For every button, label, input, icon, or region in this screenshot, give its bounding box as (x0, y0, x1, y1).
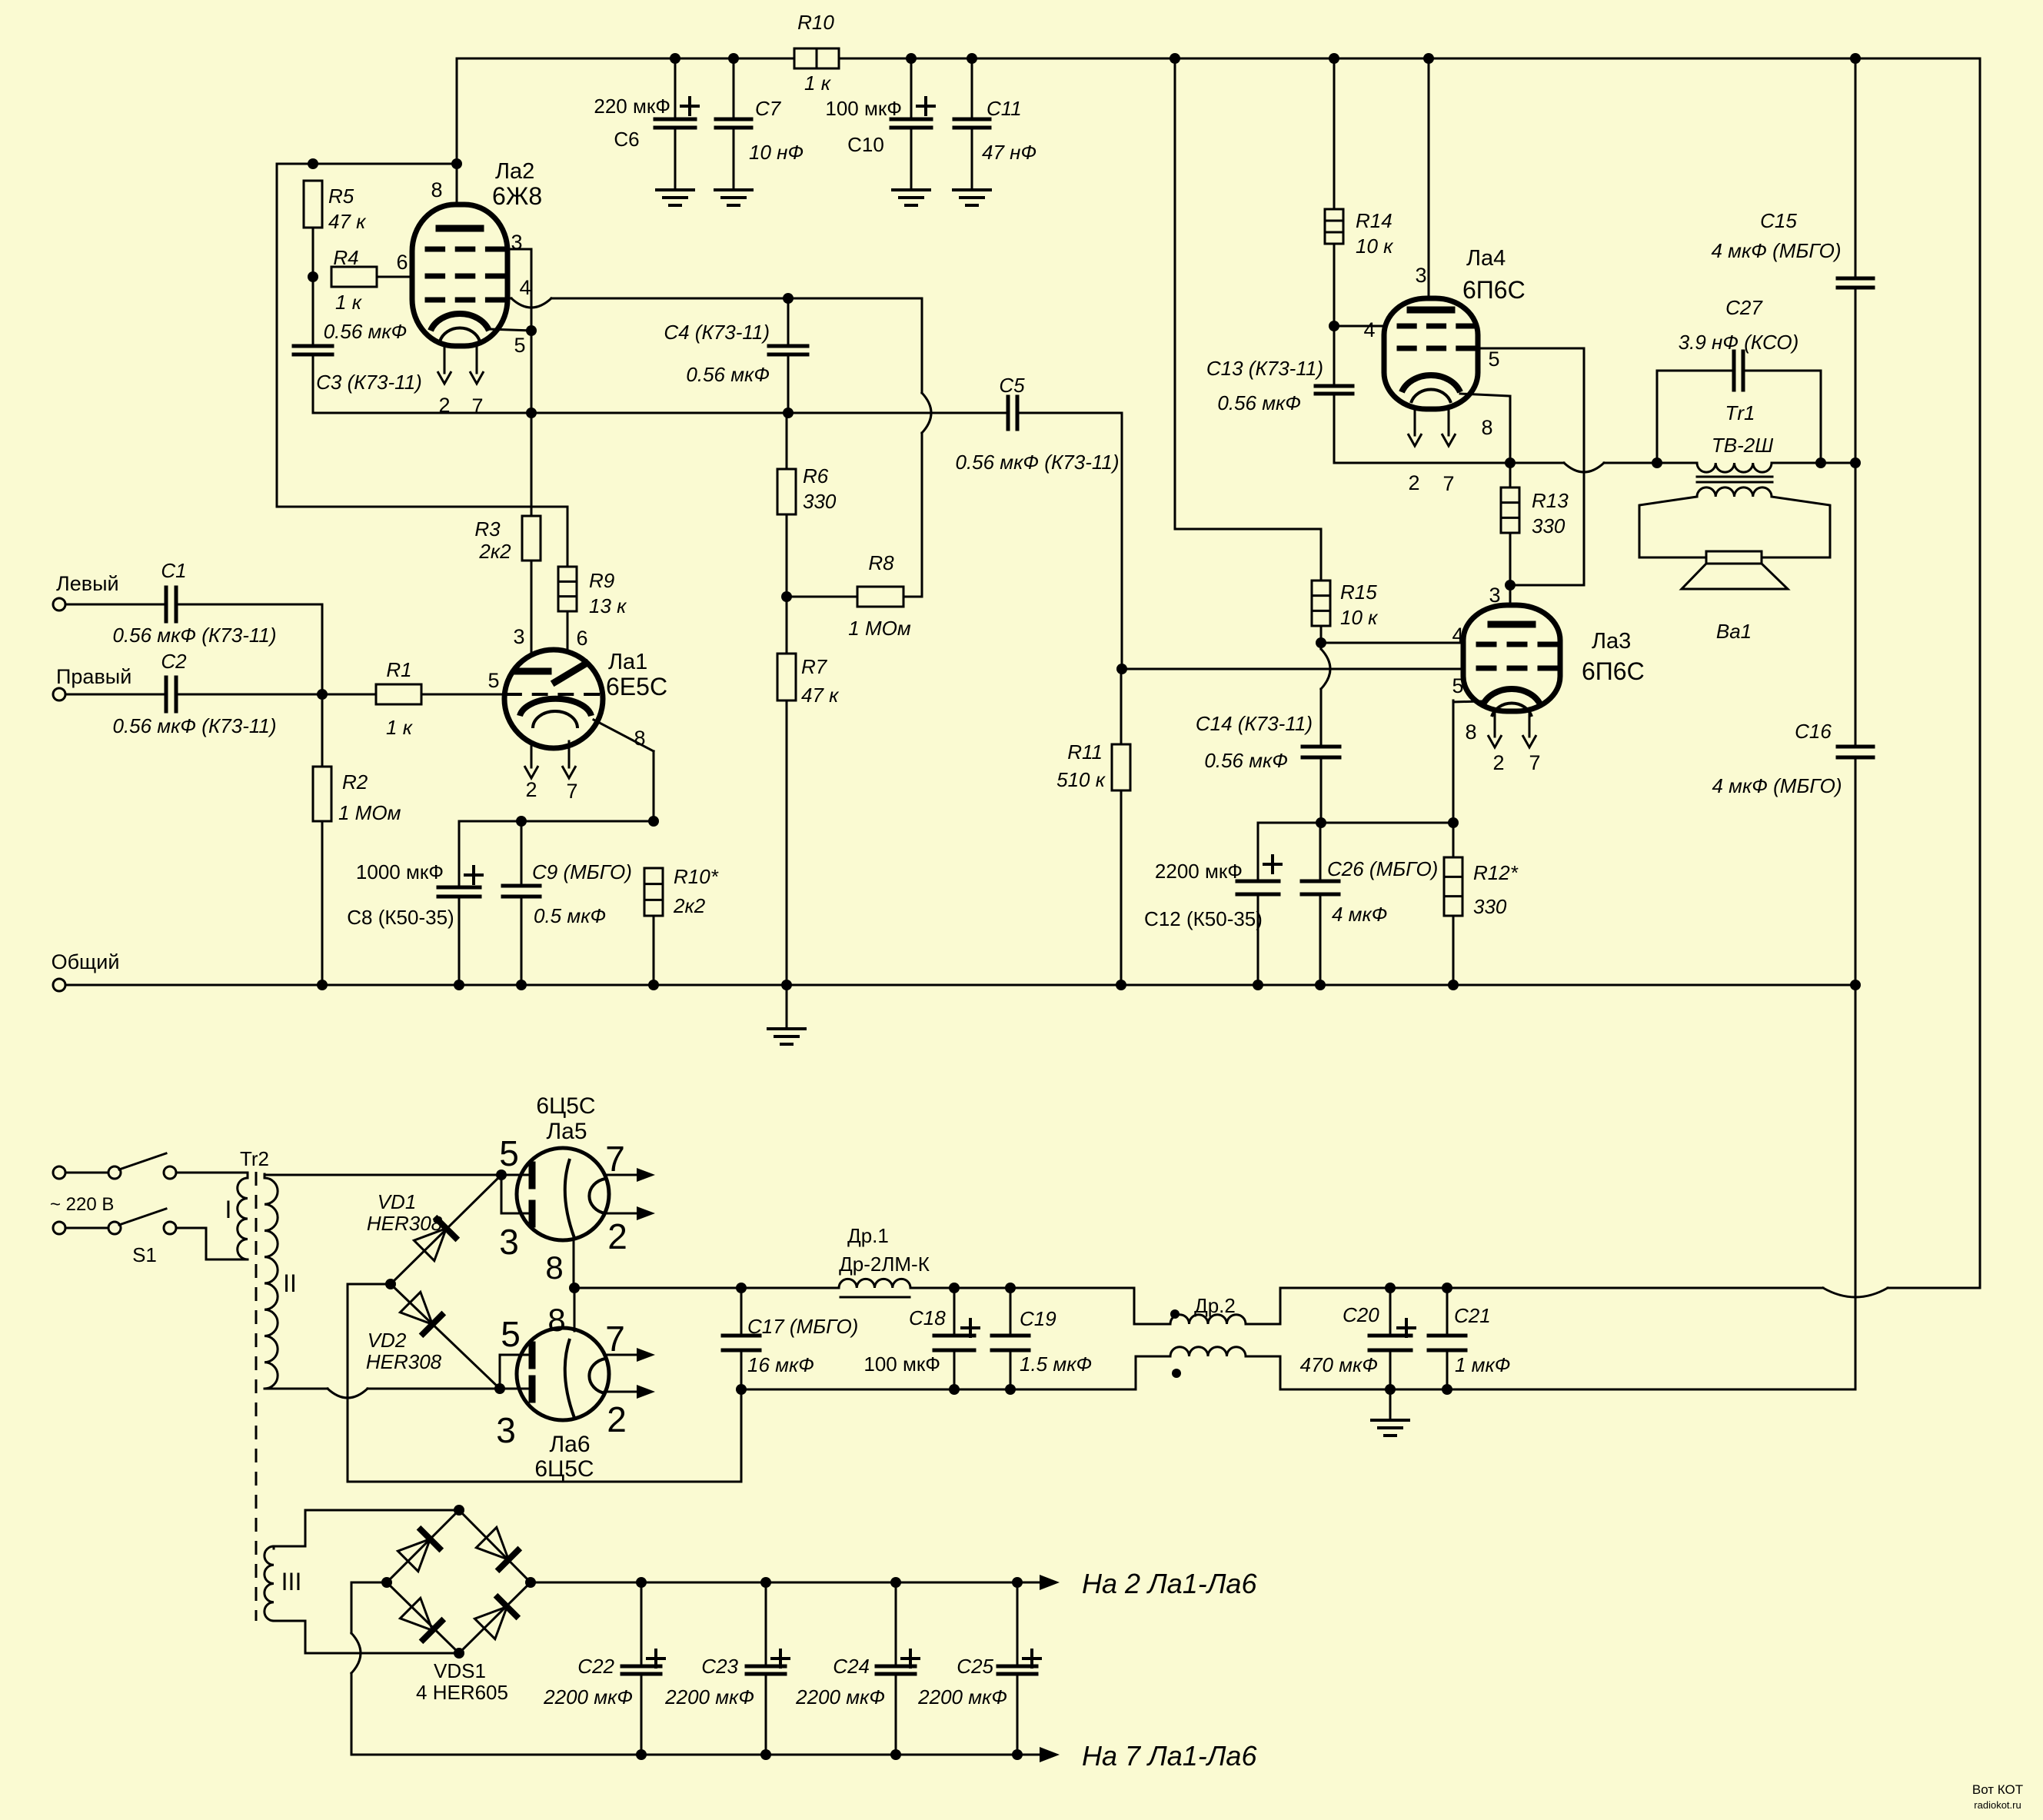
svg-text:2: 2 (607, 1216, 627, 1256)
svg-text:6П6С: 6П6С (1582, 657, 1645, 685)
svg-text:R4: R4 (333, 246, 358, 269)
svg-text:6Е5С: 6Е5С (606, 673, 667, 700)
svg-text:3: 3 (513, 625, 524, 648)
svg-text:С21: С21 (1454, 1304, 1491, 1327)
svg-text:С15: С15 (1760, 209, 1797, 232)
svg-text:Ла5: Ла5 (546, 1119, 587, 1144)
svg-text:1.5 мкФ: 1.5 мкФ (1020, 1353, 1092, 1376)
svg-text:0.56 мкФ: 0.56 мкФ (324, 320, 408, 343)
svg-text:Ва1: Ва1 (1716, 620, 1752, 643)
svg-text:R3: R3 (474, 517, 501, 541)
svg-text:1 к: 1 к (335, 291, 363, 314)
svg-text:1000 мкФ: 1000 мкФ (356, 860, 444, 883)
svg-text:С27: С27 (1725, 296, 1763, 319)
svg-text:С22: С22 (577, 1655, 614, 1678)
svg-text:1 МОм: 1 МОм (848, 617, 911, 640)
svg-text:С8 (К50-35): С8 (К50-35) (347, 906, 454, 929)
svg-text:3: 3 (1489, 584, 1500, 607)
svg-text:R1: R1 (386, 658, 411, 681)
svg-text:2200 мкФ: 2200 мкФ (917, 1685, 1007, 1709)
svg-text:HER308: HER308 (366, 1350, 442, 1373)
svg-text:2: 2 (607, 1399, 627, 1439)
svg-text:VD2: VD2 (368, 1329, 407, 1352)
svg-text:7: 7 (566, 780, 577, 803)
svg-text:7: 7 (1529, 751, 1540, 774)
svg-text:R6: R6 (803, 464, 829, 487)
svg-text:С7: С7 (755, 97, 782, 120)
svg-text:С17 (МБГО): С17 (МБГО) (747, 1315, 858, 1338)
svg-text:R10: R10 (797, 11, 834, 34)
svg-text:10 к: 10 к (1340, 606, 1379, 629)
svg-text:6: 6 (576, 627, 587, 650)
svg-text:47 к: 47 к (801, 684, 840, 707)
svg-text:Левый: Левый (56, 572, 119, 595)
svg-text:5: 5 (1452, 674, 1463, 697)
svg-text:8: 8 (1465, 720, 1476, 744)
svg-text:Др.2: Др.2 (1194, 1294, 1236, 1317)
svg-text:radiokot.ru: radiokot.ru (1974, 1799, 2021, 1811)
svg-text:Правый: Правый (56, 665, 131, 688)
svg-text:330: 330 (1473, 895, 1507, 918)
svg-text:5: 5 (501, 1314, 521, 1354)
svg-text:6П6С: 6П6С (1462, 276, 1526, 304)
svg-text:3: 3 (499, 1222, 519, 1262)
svg-text:2200 мкФ: 2200 мкФ (1155, 860, 1243, 883)
svg-text:0.56 мкФ: 0.56 мкФ (1204, 749, 1288, 772)
svg-text:С18: С18 (909, 1306, 946, 1329)
svg-text:2200 мкФ: 2200 мкФ (664, 1685, 754, 1709)
svg-text:4 мкФ (МБГО): 4 мкФ (МБГО) (1712, 774, 1842, 797)
svg-text:330: 330 (803, 490, 837, 513)
svg-text:Ла4: Ла4 (1466, 246, 1506, 271)
svg-text:С19: С19 (1020, 1307, 1056, 1330)
svg-text:С26 (МБГО): С26 (МБГО) (1327, 857, 1438, 880)
svg-text:С4 (К73-11): С4 (К73-11) (664, 321, 770, 344)
svg-text:2: 2 (1492, 751, 1504, 774)
svg-text:0.5 мкФ: 0.5 мкФ (534, 904, 606, 927)
svg-text:С2: С2 (161, 650, 187, 673)
svg-text:С12 (К50-35): С12 (К50-35) (1144, 907, 1263, 930)
svg-text:16 мкФ: 16 мкФ (747, 1353, 814, 1376)
svg-text:R11: R11 (1067, 740, 1103, 764)
svg-text:Ла1: Ла1 (608, 650, 647, 674)
svg-text:100 мкФ: 100 мкФ (863, 1353, 940, 1376)
svg-text:Вот КОТ: Вот КОТ (1972, 1782, 2023, 1797)
svg-text:На 7 Ла1-Ла6: На 7 Ла1-Ла6 (1082, 1740, 1257, 1772)
svg-text:HER308: HER308 (367, 1212, 443, 1235)
svg-text:2к2: 2к2 (673, 894, 706, 917)
svg-text:6Ж8: 6Ж8 (492, 182, 542, 210)
svg-text:II: II (283, 1269, 297, 1297)
svg-text:Тr1: Тr1 (1725, 401, 1755, 424)
svg-text:0.56 мкФ (К73-11): 0.56 мкФ (К73-11) (955, 451, 1119, 474)
svg-text:5: 5 (499, 1133, 519, 1173)
svg-text:R8: R8 (868, 551, 894, 574)
svg-text:8: 8 (545, 1249, 563, 1286)
svg-text:С24: С24 (833, 1655, 870, 1678)
svg-text:1 к: 1 к (804, 72, 832, 95)
svg-text:VDS1: VDS1 (434, 1659, 486, 1682)
svg-text:10 к: 10 к (1356, 235, 1394, 258)
svg-text:На 2 Ла1-Ла6: На 2 Ла1-Ла6 (1082, 1568, 1257, 1599)
svg-text:3: 3 (496, 1410, 516, 1450)
svg-text:1 к: 1 к (386, 716, 414, 739)
svg-text:С13 (К73-11): С13 (К73-11) (1206, 357, 1323, 380)
svg-text:0.56 мкФ (К73-11): 0.56 мкФ (К73-11) (112, 714, 276, 737)
svg-text:2: 2 (1408, 471, 1419, 494)
svg-text:Ла2: Ла2 (495, 159, 534, 184)
svg-text:С5: С5 (999, 374, 1025, 397)
svg-text:0.56 мкФ: 0.56 мкФ (1217, 391, 1301, 414)
svg-text:4: 4 (519, 276, 531, 299)
svg-text:7: 7 (1442, 472, 1454, 495)
svg-text:Общий: Общий (52, 950, 120, 973)
svg-text:220 мкФ: 220 мкФ (594, 95, 670, 118)
svg-text:I: I (225, 1196, 232, 1223)
svg-text:Ла6: Ла6 (549, 1432, 590, 1457)
svg-text:5: 5 (487, 669, 499, 692)
svg-text:470 мкФ: 470 мкФ (1300, 1353, 1378, 1376)
svg-text:4 мкФ: 4 мкФ (1332, 903, 1387, 926)
svg-text:С11: С11 (987, 97, 1022, 120)
svg-text:Ла3: Ла3 (1592, 629, 1631, 654)
svg-text:330: 330 (1532, 514, 1566, 537)
svg-text:4 HER605: 4 HER605 (416, 1681, 508, 1704)
svg-text:1 мкФ: 1 мкФ (1455, 1353, 1510, 1376)
svg-text:2к2: 2к2 (478, 540, 511, 563)
svg-text:3: 3 (1415, 264, 1426, 287)
svg-text:100 мкФ: 100 мкФ (825, 97, 902, 120)
svg-text:С9 (МБГО): С9 (МБГО) (532, 860, 632, 883)
svg-text:8: 8 (1481, 416, 1492, 439)
svg-text:47 нФ: 47 нФ (982, 141, 1036, 164)
svg-text:2200 мкФ: 2200 мкФ (795, 1685, 885, 1709)
svg-text:С25: С25 (957, 1655, 993, 1678)
svg-text:С1: С1 (161, 559, 186, 582)
svg-text:5: 5 (514, 334, 525, 357)
svg-text:III: III (281, 1568, 302, 1595)
svg-text:47 к: 47 к (328, 210, 367, 233)
svg-text:R9: R9 (589, 569, 614, 592)
svg-text:С14 (К73-11): С14 (К73-11) (1196, 712, 1313, 735)
svg-text:С23: С23 (701, 1655, 738, 1678)
svg-text:6Ц5С: 6Ц5С (534, 1456, 594, 1482)
svg-text:R13: R13 (1532, 489, 1569, 512)
svg-text:С10: С10 (847, 133, 884, 156)
svg-text:Др.1: Др.1 (847, 1224, 889, 1247)
svg-text:0.56 мкФ (К73-11): 0.56 мкФ (К73-11) (112, 624, 276, 647)
svg-text:13 к: 13 к (589, 594, 627, 617)
svg-text:2: 2 (525, 778, 537, 801)
svg-text:7: 7 (605, 1139, 625, 1179)
svg-text:Tr2: Tr2 (240, 1147, 269, 1170)
svg-text:10 нФ: 10 нФ (749, 141, 804, 164)
svg-text:8: 8 (431, 178, 442, 201)
svg-text:6: 6 (396, 251, 408, 274)
svg-text:~ 220 В: ~ 220 В (50, 1194, 114, 1215)
svg-text:С20: С20 (1343, 1303, 1379, 1326)
svg-text:R12*: R12* (1473, 861, 1519, 884)
svg-text:R10*: R10* (674, 865, 719, 888)
svg-text:5: 5 (1488, 348, 1499, 371)
svg-text:R2: R2 (342, 770, 368, 794)
svg-text:С6: С6 (614, 128, 639, 151)
svg-text:ТВ-2Ш: ТВ-2Ш (1712, 434, 1773, 457)
svg-text:3.9 нФ (КСО): 3.9 нФ (КСО) (1679, 331, 1799, 354)
svg-text:510 к: 510 к (1056, 768, 1106, 791)
svg-text:VD1: VD1 (378, 1190, 417, 1213)
svg-text:R14: R14 (1356, 209, 1393, 232)
svg-text:1 МОм: 1 МОм (338, 801, 401, 824)
svg-text:С3 (К73-11): С3 (К73-11) (316, 371, 422, 394)
svg-text:R5: R5 (328, 185, 354, 208)
svg-text:6Ц5С: 6Ц5С (536, 1093, 595, 1119)
svg-text:4: 4 (1363, 318, 1375, 341)
svg-text:Др-2ЛМ-К: Др-2ЛМ-К (839, 1253, 930, 1276)
svg-text:2200 мкФ: 2200 мкФ (543, 1685, 633, 1709)
svg-text:С16: С16 (1795, 720, 1832, 743)
svg-text:4 мкФ (МБГО): 4 мкФ (МБГО) (1711, 239, 1841, 262)
svg-text:0.56 мкФ: 0.56 мкФ (686, 363, 770, 386)
svg-text:S1: S1 (132, 1243, 157, 1266)
svg-text:8: 8 (547, 1302, 565, 1338)
svg-text:R7: R7 (801, 655, 828, 678)
svg-text:R15: R15 (1340, 581, 1377, 604)
svg-text:7: 7 (605, 1319, 625, 1359)
